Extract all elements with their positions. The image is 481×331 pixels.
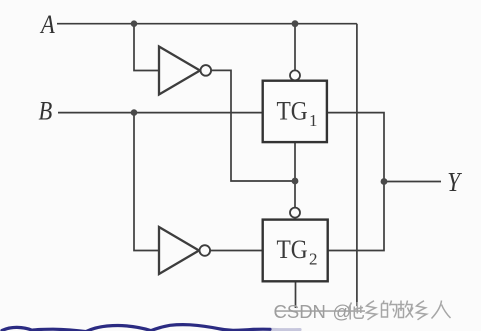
wire U2 output to TG2 [210, 250, 263, 252]
inverter U2 bubble [200, 245, 211, 256]
wire TG2 bottom control [295, 282, 297, 309]
wire TG1 output to node Y [327, 113, 384, 182]
wire B branch to inverter U2 [134, 113, 159, 251]
wire node Y to label [384, 181, 441, 183]
inverter U1 bubble [201, 65, 212, 76]
wire A branch to TG1 top bubble [294, 24, 296, 71]
hanzi 乡 (second) [417, 301, 427, 320]
svg-text:2: 2 [309, 249, 318, 268]
hanzi 乡 [367, 301, 377, 320]
TG1 box [263, 81, 327, 142]
TG2 box [263, 220, 328, 282]
watermark strikethrough line [276, 310, 365, 312]
wire TG1 bottom to TG2 top bubble [294, 143, 296, 208]
svg-text:TG: TG [277, 236, 308, 264]
inverter U1 triangle [159, 47, 200, 95]
svg-text:TG: TG [277, 98, 308, 126]
svg-text:B: B [39, 97, 53, 126]
TG2 control bubble (top of TG2) [290, 208, 300, 218]
label TG2 [277, 236, 318, 268]
node dot on wire B at inverter branch [131, 109, 138, 116]
inverter U2 triangle [159, 227, 199, 274]
hanzi 故 [398, 301, 414, 318]
svg-text:A: A [39, 10, 55, 39]
TG1 control bubble (top of TG1) [290, 70, 300, 80]
hanzi 人 [432, 301, 451, 319]
wire A horizontal [57, 23, 357, 25]
node dot on wire A at inverter branch [131, 20, 138, 27]
hanzi 的 [382, 301, 397, 318]
node P dot between TG1 and TG2 [292, 178, 299, 185]
node dot on wire A at TG1 control branch [292, 20, 299, 27]
wire B horizontal [58, 112, 263, 114]
wire A long vertical drop [356, 24, 358, 306]
svg-text:1: 1 [309, 111, 318, 130]
wire A branch to inverter U1 [134, 24, 159, 71]
node Y dot [381, 178, 388, 185]
hanzi 他 [349, 302, 364, 320]
watermark CSDN @... [274, 301, 451, 323]
wire TG2 output to node Y [328, 182, 384, 251]
wire U1 output to node P [211, 70, 295, 181]
label TG1 [277, 98, 318, 130]
blue doodle wave at bottom [2, 325, 300, 331]
